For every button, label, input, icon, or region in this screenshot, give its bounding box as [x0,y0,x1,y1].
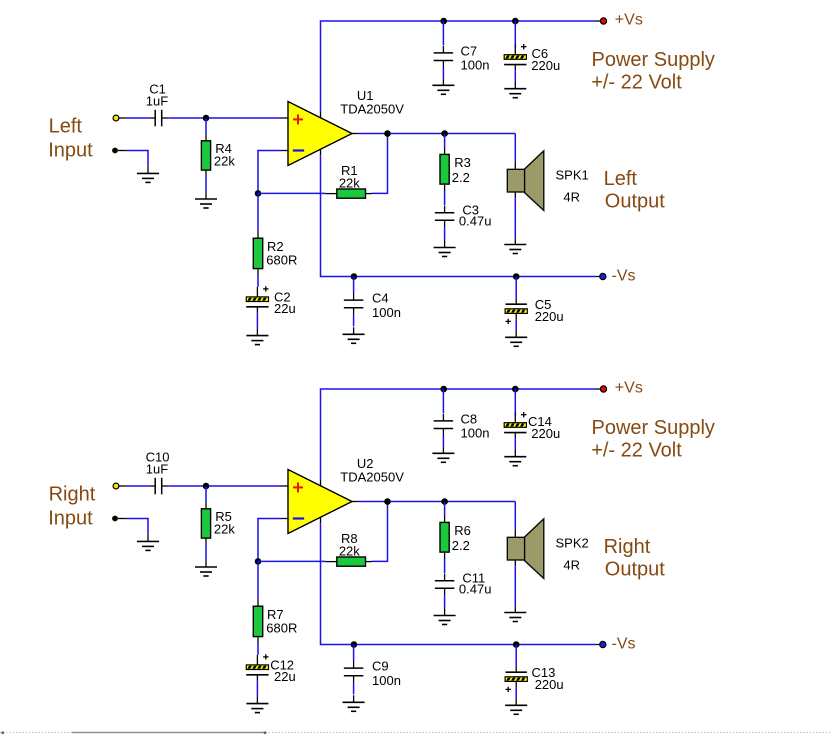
resistor R4 [205,134,207,140]
junction input/R4 [203,115,210,122]
svg-text:Right: Right [49,483,96,505]
wire C1 to op-amp + [168,117,281,119]
svg-text:22k: 22k [339,543,360,558]
wire node to R1 [258,192,325,194]
svg-text:1uF: 1uF [146,462,168,477]
wire output to R3 [444,134,446,149]
svg-text:220u: 220u [531,426,560,441]
wire speaker to ground [514,567,516,606]
svg-text:22k: 22k [214,522,235,537]
svg-text:C9: C9 [372,659,389,674]
junction rail/C13 [513,641,520,648]
op-amp U1 TDA2050V [288,102,352,166]
svg-text:100n: 100n [461,426,490,441]
capacitor C2 electrolytic [256,287,258,297]
svg-text:-Vs: -Vs [612,635,636,652]
wire C9 to ground [353,683,355,695]
svg-text:+/- 22 Volt: +/- 22 Volt [591,439,682,461]
ground R5 [205,560,207,567]
svg-text:Left: Left [604,168,638,190]
svg-text:4R: 4R [563,190,580,205]
capacitor C4 [353,293,355,300]
ground C14 [514,450,516,457]
svg-text:2.2: 2.2 [452,170,470,185]
svg-text:Power Supply: Power Supply [592,417,715,439]
svg-text:-Vs: -Vs [612,267,636,284]
terminal input ground [112,148,118,154]
ground speaker [514,238,516,245]
terminal signal input [113,115,119,121]
svg-text:Input: Input [48,139,93,161]
junction feedback node [255,558,262,565]
resistor R6 zobel [444,516,446,522]
wire op-amp inverting input [258,519,282,562]
wire C6 to ground [514,70,516,82]
svg-text:22u: 22u [274,301,296,316]
wire node to R2 [257,193,259,231]
ground C11 [444,609,446,616]
capacitor C9 [353,661,355,668]
wire +Vs rail [321,21,597,112]
ground speaker [514,606,516,613]
svg-text:100n: 100n [372,305,401,320]
svg-text:SPK2: SPK2 [556,536,589,551]
svg-text:Right: Right [604,536,651,558]
wire op-amp output [358,133,515,135]
wire output to speaker [514,502,516,530]
junction output/feedback [384,498,391,505]
wire C10 to op-amp + [168,485,281,487]
wire C5 to ground [515,320,517,331]
svg-text:220u: 220u [535,677,564,692]
wire input to C1 [127,117,149,119]
svg-text:0.47u: 0.47u [459,214,492,229]
resistor R5 [205,502,207,508]
wire output to R6 [444,502,446,517]
wire C14 to ground [514,438,516,450]
ground input [147,165,149,173]
wire to R4 [205,118,207,134]
terminal -Vs [600,641,606,647]
junction output/R6 [441,498,448,505]
wire to R5 [205,486,207,502]
junction output/R3 [441,130,448,137]
svg-text:220u: 220u [535,309,564,324]
wire input to C10 [127,485,149,487]
wire output to speaker [514,134,516,162]
wire R5 to ground [205,545,207,561]
svg-text:2.2: 2.2 [452,538,470,553]
resistor R2 [257,232,259,238]
horizontal scrollbar thumb [72,732,265,734]
wire R8 to output [372,502,388,562]
speaker SPK2 [514,530,516,538]
terminal input ground [112,516,118,522]
svg-text:Output: Output [605,558,665,580]
svg-text:+Vs: +Vs [615,12,643,29]
svg-text:R7: R7 [267,607,284,622]
wire C7 to ground [442,68,444,79]
capacitor C11 zobel [444,574,446,581]
svg-text:Power Supply: Power Supply [592,49,715,71]
ground R4 [205,192,207,199]
ground C3 [444,241,446,248]
svg-text:R6: R6 [454,523,471,538]
ground C5 [515,330,517,337]
ground C8 [442,446,444,453]
capacitor C12 electrolytic [256,655,258,665]
capacitor C7 [442,46,444,53]
junction input/R5 [203,483,210,490]
svg-text:+/- 22 Volt: +/- 22 Volt [591,71,682,93]
svg-text:22k: 22k [339,175,360,190]
wire C3 to ground [444,227,446,240]
svg-text:680R: 680R [266,621,297,636]
wire op-amp inverting input [258,151,282,194]
junction rail/C14 [512,386,519,393]
junction rail/C6 [512,18,519,25]
wire rail to C9 [353,645,355,662]
resistor R1 feedback [325,193,337,195]
svg-text:1uF: 1uF [146,94,168,109]
wire -Vs rail [321,523,597,644]
wire rail to C7 [442,21,444,45]
junction rail/C8 [440,386,447,393]
svg-text:0.47u: 0.47u [459,582,492,597]
wire -Vs rail [321,155,597,276]
wire R2 to C2 [257,275,259,287]
capacitor C13 electrolytic [515,666,517,672]
ground C4 [353,327,355,334]
resistor R3 zobel [444,148,446,154]
wire C2 to ground [256,312,258,328]
sheet border dotted line [0,732,831,734]
wire rail to C5 [515,277,517,299]
wire C11 to ground [444,595,446,608]
ground C7 [442,78,444,85]
svg-text:Input: Input [48,507,93,529]
wire C13 to ground [515,688,517,699]
svg-text:680R: 680R [266,253,297,268]
wire op-amp output [358,501,515,503]
wire node to R7 [257,561,259,599]
terminal +Vs [600,18,606,24]
wire C8 to ground [442,436,444,447]
terminal +Vs [600,386,606,392]
junction feedback node [255,190,262,197]
svg-text:C4: C4 [372,291,389,306]
svg-text:TDA2050V: TDA2050V [340,102,404,117]
wire rail to C13 [515,645,517,667]
junction output/feedback [384,130,391,137]
wire R7 to C12 [257,643,259,655]
wire rail to C6 [514,21,516,48]
capacitor C14 electrolytic [514,413,516,423]
svg-text:220u: 220u [531,58,560,73]
ground C13 [515,698,517,705]
wire R6 to C11 [444,559,446,574]
ground C12 [256,697,258,704]
wire R4 to ground [205,177,207,193]
junction rail/C4 [351,273,358,280]
wire rail to C14 [514,389,516,416]
capacitor C8 [442,414,444,421]
svg-text:22u: 22u [274,669,296,684]
capacitor C1 coupling [149,117,155,119]
terminal signal input [113,483,119,489]
ground C2 [256,329,258,336]
capacitor C5 electrolytic [515,298,517,304]
resistor R7 [257,600,259,606]
capacitor C10 coupling [149,485,155,487]
speaker SPK1 [514,162,516,170]
svg-text:R2: R2 [267,239,284,254]
junction rail/C7 [440,18,447,25]
wire R1 to output [372,134,388,194]
svg-text:SPK1: SPK1 [556,168,589,183]
wire C12 to ground [256,680,258,696]
svg-text:22k: 22k [214,154,235,169]
svg-text:C8: C8 [461,411,478,426]
wire rail to C8 [442,389,444,413]
ground input [147,533,149,541]
svg-text:Output: Output [605,190,665,212]
svg-text:TDA2050V: TDA2050V [340,470,404,485]
svg-text:4R: 4R [563,558,580,573]
resistor R8 feedback [325,561,337,563]
wire speaker to ground [514,199,516,238]
capacitor C3 zobel [444,206,446,213]
svg-text:100n: 100n [461,58,490,73]
capacitor C6 electrolytic [514,45,516,55]
svg-text:+Vs: +Vs [615,380,643,397]
terminal -Vs [600,273,606,279]
wire C4 to ground [353,315,355,327]
wire +Vs rail [321,389,597,480]
junction rail/C5 [513,273,520,280]
svg-text:C7: C7 [461,43,478,58]
wire input ground [127,519,148,534]
wire node to R8 [258,560,325,562]
junction rail/C9 [351,641,358,648]
wire R3 to C3 [444,191,446,206]
wire input ground [127,151,148,166]
ground C6 [514,82,516,89]
svg-text:100n: 100n [372,673,401,688]
svg-text:R3: R3 [454,155,471,170]
ground C9 [353,695,355,702]
op-amp U2 TDA2050V [288,470,352,534]
svg-text:Left: Left [49,115,83,137]
wire rail to C4 [353,277,355,294]
